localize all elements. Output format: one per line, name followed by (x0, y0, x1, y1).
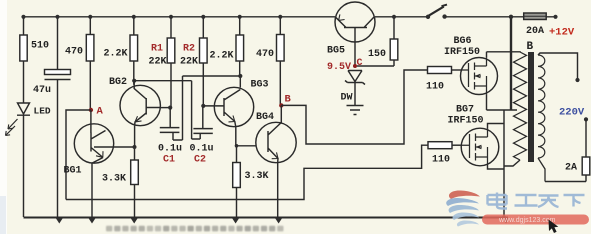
resistor 110 (BG6 gate) (426, 67, 461, 93)
svg-text:2.2K: 2.2K (104, 49, 128, 60)
svg-text:C: C (357, 58, 363, 69)
ground (347, 106, 364, 115)
svg-text:470: 470 (65, 47, 83, 58)
resistor 3.3K (right) (233, 146, 269, 217)
wire BG2 base to C1/R1 node (160, 106, 172, 110)
node A (89, 106, 104, 118)
capacitor C2 0.1u (190, 106, 214, 166)
wire BG6 drain to transformer primary top (487, 52, 521, 58)
svg-text:BG3: BG3 (251, 80, 269, 91)
zener diode DW (341, 71, 366, 106)
resistor 110 (BG7 gate) (428, 142, 462, 166)
transistor BG2 (109, 77, 160, 147)
svg-text:R2: R2 (183, 44, 195, 55)
ground rail arrowheads (56, 218, 510, 224)
svg-text:2A: 2A (565, 163, 577, 174)
transformer B label (527, 41, 534, 53)
svg-text:20A: 20A (526, 26, 544, 37)
svg-text:0.1u: 0.1u (158, 144, 182, 155)
resistor 2.2K (right) (210, 17, 244, 88)
transistor BG4 (256, 105, 296, 217)
junction dot BG3 collector node (238, 74, 242, 78)
terminal output lower (584, 117, 588, 121)
watermark red banner (482, 215, 589, 225)
svg-text:www.dgjs123.com: www.dgjs123.com (498, 217, 556, 224)
fuse 20A (524, 13, 547, 37)
svg-text:IRF150: IRF150 (444, 47, 480, 58)
svg-text:220V: 220V (559, 107, 585, 119)
transistor BG1 (64, 110, 114, 217)
watermark logo swirl (446, 191, 480, 227)
caption text (faint) (106, 226, 284, 232)
junction dot BG3 base node (201, 104, 205, 108)
svg-text:3.3K: 3.3K (245, 171, 269, 182)
watermark text 电工天下 (488, 193, 585, 209)
junction dot source rail (502, 215, 506, 219)
svg-text:0.1u: 0.1u (190, 144, 214, 155)
svg-text:B: B (527, 41, 534, 53)
svg-text:R1: R1 (151, 44, 163, 55)
wire node A feedback to BG7 gate path (66, 145, 428, 199)
fuse 2A (545, 119, 590, 181)
svg-text:9.5V: 9.5V (327, 62, 351, 73)
svg-text:150: 150 (368, 49, 386, 60)
wire cross-coupling C2 to BG2 (134, 81, 191, 139)
wire node B to BG6 gate path (281, 70, 427, 144)
svg-text:C1: C1 (163, 155, 175, 166)
wire mosfet common line (487, 110, 521, 218)
transformer secondary winding (538, 55, 545, 158)
wire BG4 base (237, 145, 257, 147)
junction dots top rail (21, 15, 396, 19)
svg-text:A: A (97, 106, 104, 118)
svg-text:3.3K: 3.3K (102, 174, 126, 185)
transformer primary winding (514, 52, 527, 160)
svg-text:BG5: BG5 (327, 46, 345, 57)
label 220V (559, 107, 585, 119)
resistor 470 (right) (256, 17, 284, 106)
svg-text:110: 110 (432, 155, 450, 166)
terminal +12V (549, 15, 575, 39)
wire bottom ground rail (24, 217, 509, 219)
node C (353, 58, 363, 69)
svg-text:IRF150: IRF150 (448, 116, 484, 127)
wire +12V center tap (thick) (509, 15, 513, 110)
svg-text:BG7: BG7 (456, 105, 474, 116)
wire cross-coupling C1 to BG3 (183, 75, 241, 77)
svg-text:BG2: BG2 (109, 77, 127, 88)
junction dot 3.3K top (133, 145, 137, 149)
svg-text:BG6: BG6 (454, 36, 472, 47)
resistor 510 (20, 17, 49, 103)
switch S (426, 5, 447, 19)
resistor R2 22K (180, 17, 207, 106)
svg-text:470: 470 (256, 49, 274, 60)
wire secondary top to output terminal (538, 53, 580, 182)
svg-text:B: B (285, 94, 292, 106)
mosfet BG7 IRF150 (448, 105, 499, 166)
transformer core (528, 52, 534, 162)
cursor arrow (549, 220, 559, 234)
svg-text:+12V: +12V (549, 27, 575, 39)
svg-text:2.2K: 2.2K (210, 51, 234, 62)
svg-text:22K: 22K (149, 57, 167, 68)
junction dot 3.3K right top (235, 144, 239, 148)
svg-text:110: 110 (426, 82, 444, 93)
resistor R1 22K (149, 17, 175, 108)
resistor 470 (left) (65, 17, 94, 110)
wire node A to feedback line (66, 110, 91, 200)
capacitor 47u (33, 17, 71, 217)
svg-text:C2: C2 (194, 155, 206, 166)
LED (6, 103, 51, 217)
resistor 3.3K (left) (102, 147, 138, 217)
svg-text:LED: LED (34, 106, 51, 117)
transistor BG3 (203, 80, 268, 146)
svg-text:DW: DW (341, 93, 353, 104)
svg-text:510: 510 (31, 41, 49, 52)
resistor 150 (357, 17, 398, 66)
capacitor C1 0.1u (158, 76, 183, 166)
wire BG6 source down (486, 94, 488, 110)
svg-text:BG4: BG4 (256, 112, 274, 123)
wire top supply rail (24, 16, 556, 18)
svg-text:47u: 47u (33, 85, 51, 96)
label 9.5V (327, 62, 351, 73)
junction dot BG2 collector node (132, 79, 136, 83)
transistor BG5 (327, 2, 375, 66)
svg-text:BG1: BG1 (64, 166, 82, 177)
svg-text:22K: 22K (180, 57, 198, 68)
resistor 2.2K (left) (104, 17, 138, 85)
mosfet BG6 IRF150 (444, 36, 498, 95)
node B (279, 94, 291, 108)
